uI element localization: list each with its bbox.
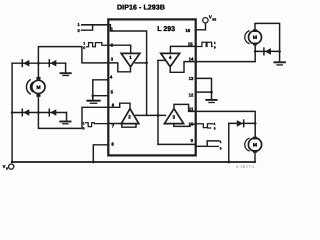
diode D1 (23, 60, 29, 67)
diode D3 (23, 109, 29, 116)
svg-text:0: 0 (214, 127, 216, 131)
wire motor M2 top loop (255, 23, 280, 51)
svg-text:1: 1 (77, 22, 80, 27)
svg-text:3: 3 (173, 114, 176, 119)
wire enable taps to buffers A2 A3 (136, 114, 166, 116)
wire enable1 tap to buffer A1 (135, 62, 146, 64)
svg-text:2: 2 (128, 114, 131, 119)
node diode D5 ground junction (278, 50, 281, 53)
wire pin 15 input to buffer A4 (170, 46, 195, 53)
diode D5 (265, 48, 271, 55)
svg-text:16: 16 (185, 28, 190, 33)
svg-text:0: 0 (220, 146, 222, 150)
wire Vs left rail (11, 63, 13, 162)
node Vs rail left junction (11, 161, 14, 164)
ground top right (279, 51, 281, 61)
svg-text:0: 0 (83, 46, 85, 50)
terminal Vss (203, 18, 208, 23)
node bridge bottom junction (37, 111, 40, 114)
node motor M2 bottom junction (254, 50, 257, 53)
wire pin 10 input to buffer A3 (174, 124, 196, 127)
ground for pins 4 5 (87, 100, 99, 102)
wire pin 14 to motor M2 (196, 45, 256, 61)
wire diode D5 row (255, 50, 279, 52)
svg-text:0: 0 (77, 28, 80, 33)
wire pin 7 input to buffer A2 (108, 124, 136, 128)
svg-text:7: 7 (112, 124, 115, 129)
buffer A4 triangle (161, 53, 180, 66)
svg-text:4: 4 (110, 74, 113, 79)
svg-text:14: 14 (189, 57, 194, 62)
buffer A3 triangle (164, 109, 183, 124)
buffer A2 triangle (121, 109, 139, 124)
wire pins 13 12 loop (196, 78, 212, 92)
node diode D6 rail junction (228, 161, 231, 164)
node pins 13 12 junction (210, 91, 213, 94)
wire motor M3 to Vs rail (254, 153, 256, 162)
IC U1 L293B body (108, 19, 195, 155)
motor M2 rotation arc (245, 31, 249, 44)
wire pin 2 input to buffer A1 (108, 45, 130, 53)
svg-text:1: 1 (83, 41, 85, 45)
node enable2 junction (157, 114, 160, 117)
motor M3 rotation arc (245, 138, 249, 151)
motor M1 rotation arcs (26, 80, 30, 94)
wire diode D6 row (229, 122, 255, 124)
wire pin 3 to left motor bridge (38, 47, 108, 64)
motor M1 left (37, 63, 39, 77)
diode D6 (237, 120, 243, 127)
svg-text:15: 15 (188, 41, 193, 46)
node pins 4 5 junction (92, 94, 95, 97)
svg-text:M: M (36, 85, 40, 91)
svg-text:M: M (253, 143, 257, 149)
svg-text:0: 0 (214, 46, 216, 50)
ground at bottom bridge right (66, 113, 68, 121)
svg-text:12: 12 (189, 92, 194, 97)
wire buffer A2 output to pin 6 (108, 103, 130, 109)
wire diode D6 to Vs rail (228, 123, 230, 162)
wire left bridge top rail (12, 62, 66, 64)
svg-text:0: 0 (83, 126, 85, 130)
wire pin 16 to Vss terminal (196, 23, 206, 30)
diode D4 (50, 109, 56, 116)
svg-text:5-3827/4: 5-3827/4 (236, 164, 255, 169)
svg-text:L 293: L 293 (157, 26, 175, 33)
buffer A1 triangle (121, 53, 140, 66)
wire buffer A3 output to pin 11 (174, 104, 196, 111)
svg-text:11: 11 (189, 106, 194, 111)
ground for pins 13 12 (211, 92, 213, 99)
node bridge top junction (37, 62, 40, 65)
svg-text:8: 8 (111, 142, 114, 147)
svg-text:1: 1 (220, 140, 222, 144)
terminal Vs (9, 164, 14, 169)
wire buffer A1 output to pin 3 (108, 63, 130, 72)
svg-text:3: 3 (111, 57, 114, 62)
svg-text:M: M (253, 35, 257, 41)
svg-text:1: 1 (129, 55, 132, 60)
svg-text:6: 6 (112, 102, 115, 107)
motor M3 bottom right (248, 138, 261, 151)
input IN3 square wave at pin 10 (196, 124, 214, 128)
wire enable2 bus vertical (157, 60, 159, 144)
wire left bridge bottom rail (12, 112, 66, 114)
wire buffer A4 output to pin 14 (170, 62, 195, 73)
motor M2 top right (249, 31, 262, 44)
svg-text:9: 9 (191, 138, 194, 143)
svg-text:DIP16 - L293B: DIP16 - L293B (117, 4, 165, 11)
svg-text:S: S (6, 167, 8, 171)
node rail to bottom bridge junction (11, 111, 14, 114)
svg-text:1: 1 (214, 41, 216, 45)
diode D2 (50, 60, 56, 67)
svg-text:SS: SS (212, 17, 216, 21)
svg-text:5: 5 (111, 90, 114, 95)
node enable1 junction (145, 62, 148, 65)
wire enable2 to pin 9 (158, 143, 196, 145)
svg-text:1: 1 (214, 122, 216, 126)
wire Vs bottom rail (12, 161, 255, 163)
wire enable1 bus from pin 1 (108, 25, 146, 116)
wire pin 11 to motor M3 (196, 111, 256, 136)
ground at top bridge right (65, 63, 67, 72)
input IN4 square wave at pin 15 (196, 42, 213, 46)
wire pin 8 to Vs rail (93, 145, 108, 162)
node diode D6 junction (254, 122, 257, 125)
svg-text:13: 13 (189, 76, 194, 81)
node pin 8 rail junction (92, 161, 95, 164)
input EN2 logic level symbol at pin 9 (196, 141, 220, 146)
wire pin 6 to left motor bridge (38, 107, 108, 128)
wire pins 4 5 to ground (93, 80, 109, 100)
svg-text:4: 4 (169, 55, 172, 60)
wire enable2 tap to buffer A4 (158, 59, 166, 61)
svg-text:1: 1 (83, 121, 85, 125)
